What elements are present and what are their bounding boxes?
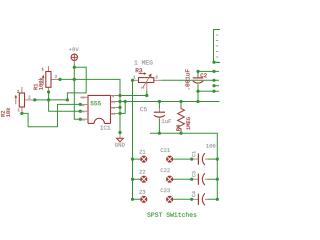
label C22 (161, 168, 170, 172)
pin mark top of R2 (17, 90, 19, 93)
solder pad 21 (140, 156, 147, 163)
pin 7 of 555 (82, 111, 85, 113)
wire R3 wiper down (146, 91, 148, 96)
label +9V (69, 47, 79, 51)
solder pad 23 (140, 196, 147, 203)
label C21 (161, 148, 170, 152)
solder pad C22 (166, 176, 173, 183)
solder pad C21 (166, 156, 173, 163)
solder pad 22 (140, 176, 147, 183)
label C23 (161, 188, 170, 192)
wire connector pin stubs (214, 62, 219, 91)
wire R3 out to connector (162, 79, 215, 81)
label 100k (39, 78, 43, 90)
potentiometer R2 (15, 87, 34, 112)
pin 4 of 555 (112, 95, 115, 97)
label IC1 (101, 126, 111, 130)
wire switch row 22 (133, 178, 192, 180)
label C4 (192, 191, 195, 196)
wire R2 bottom S-path to 555 pin-6 row (22, 104, 80, 126)
pin 3 of R3 (155, 76, 157, 79)
resistor R4 zigzag (178, 107, 185, 131)
label 1uF (162, 119, 171, 123)
label 555 (91, 101, 101, 105)
wire C2 top row to connector (198, 70, 214, 72)
pin 3r of 555 (112, 101, 115, 103)
pin 1 of R3 (133, 76, 135, 79)
wire +9V supply down to 555 pin-2 row (74, 64, 80, 120)
pin 6 of 555 (82, 104, 85, 106)
capacitor C3 (192, 173, 208, 185)
pin 1 of R1 (42, 68, 44, 71)
pin 2 of R1 (55, 75, 57, 78)
label R1 (34, 84, 38, 90)
supply +9V symbol (71, 54, 77, 63)
capacitor C1 (192, 153, 208, 165)
IC1 555 box (80, 95, 120, 123)
label R2 (1, 111, 5, 117)
capacitor C2 (193, 78, 203, 83)
wire switch row 23 (133, 198, 192, 200)
pin 2 of R2 (28, 96, 30, 99)
wire rail from R1 wiper to 555 right column down to GND (60, 79, 120, 132)
solder pad C23 (166, 196, 173, 203)
label C5 (140, 107, 147, 111)
connector JP1 pin marks (216, 35, 219, 57)
wire detour net from +9V stub to pin-6 net (67, 67, 86, 100)
wire R1 bottom to 555 pin-7 row (49, 92, 81, 112)
pin 3 of 555 (82, 97, 85, 99)
wire switch row 21 (133, 158, 192, 160)
ground symbol (117, 133, 124, 142)
wire bottom bus with corner down to caps (150, 133, 217, 199)
wire C5 leads (158, 102, 160, 134)
pin 1 of R2 (18, 108, 20, 111)
label C2 (201, 73, 207, 77)
label 10k (6, 108, 10, 117)
pin 2 of 555 (82, 119, 85, 121)
wire C2 bottom row to connector (198, 90, 214, 92)
label 100 value (206, 144, 215, 148)
label 21 (139, 150, 145, 154)
label 23 (139, 190, 145, 194)
caption SPST SWitches (147, 212, 196, 217)
label GND (115, 143, 125, 147)
wire cap right leads to right bus (208, 159, 218, 199)
wire CV bypass jog (120, 102, 125, 114)
potentiometer R1 (42, 66, 60, 92)
pin 2r of 555 (112, 107, 115, 109)
wire C2 leads (197, 71, 199, 101)
wire 555 pin-4 row to R3 wiper (120, 95, 147, 97)
label 1 MEG (134, 60, 152, 64)
label C1 (192, 151, 195, 156)
capacitor C4 (192, 193, 208, 205)
wire R2 wiper net (35, 99, 68, 101)
trimpot R3 (134, 72, 162, 90)
label R3 (136, 68, 142, 72)
connector JP1 box (214, 30, 221, 63)
label .001uF (185, 69, 189, 89)
label 1MEG of R4 (186, 117, 190, 129)
wire R3 pin1 long vertical to switch rows (132, 80, 134, 199)
capacitor C5 (154, 108, 165, 120)
label 22 (139, 170, 145, 174)
wire OUT bus to right edge (120, 101, 220, 103)
pin 2 of R3 (141, 87, 144, 89)
label R4 (176, 125, 180, 131)
wire R4 leads (180, 102, 182, 134)
pin 1r of 555 (112, 113, 115, 115)
label C3 (192, 171, 195, 176)
